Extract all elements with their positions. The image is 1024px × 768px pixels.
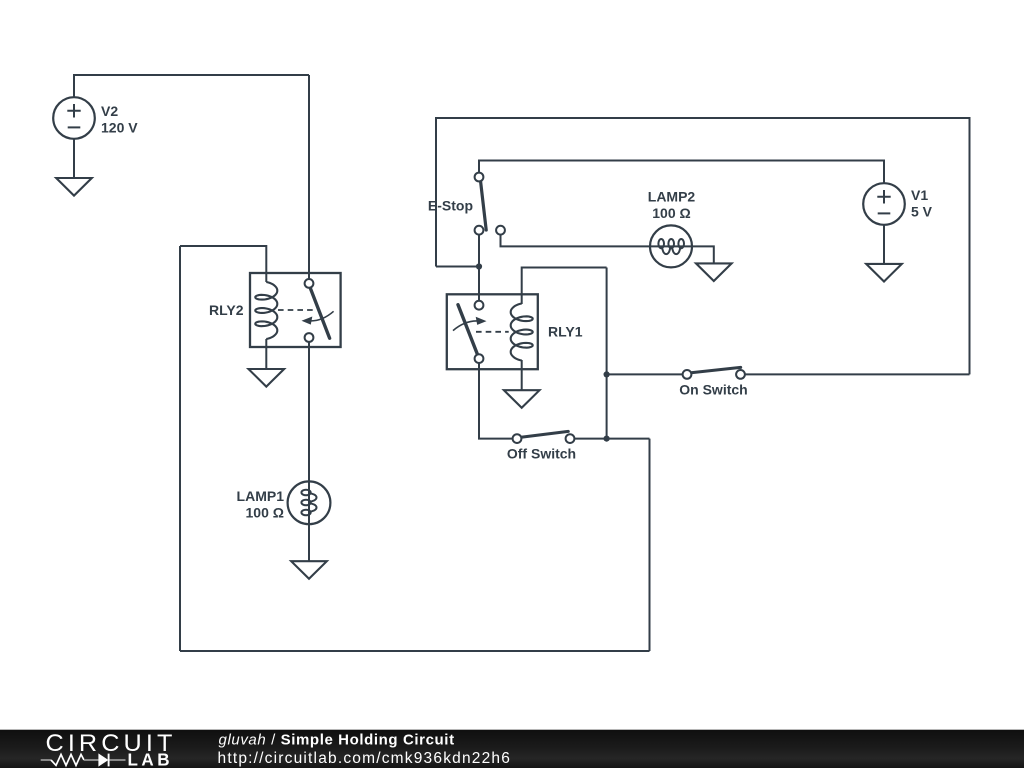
- wire inner top rail: [479, 161, 884, 184]
- svg-text:LAB: LAB: [128, 750, 174, 768]
- lamp LAMP2: [650, 225, 692, 267]
- voltage source V1: [863, 183, 905, 225]
- switch On Switch: [683, 367, 745, 378]
- wire V2 top to node: [74, 75, 309, 98]
- svg-text:120 V: 120 V: [101, 120, 138, 136]
- switch Off Switch: [513, 431, 575, 443]
- svg-text:gluvah / Simple Holding Circui: gluvah / Simple Holding Circuit: [219, 732, 455, 749]
- ground (RLY1): [504, 390, 540, 408]
- ground (V2): [56, 178, 92, 196]
- wire On Switch to outer loop: [745, 373, 970, 375]
- svg-text:LAMP1: LAMP1: [237, 488, 285, 504]
- wire bottom-left loop bottom side: [180, 650, 650, 652]
- svg-text:E-Stop: E-Stop: [428, 197, 473, 213]
- wire RLY1 coil to ground: [521, 360, 523, 390]
- ground (RLY2): [249, 369, 285, 387]
- ground (V1): [866, 264, 902, 282]
- wire node down to RLY2 switch: [308, 75, 310, 279]
- svg-text:100 Ω: 100 Ω: [652, 205, 690, 221]
- wire junction B to On Switch: [607, 373, 683, 375]
- relay RLY2: [250, 273, 341, 347]
- switch E-Stop: [475, 173, 505, 235]
- wire RLY2 coil to ground: [265, 339, 267, 369]
- wire V1 to ground: [883, 225, 885, 264]
- svg-text:Off Switch: Off Switch: [507, 446, 576, 462]
- wire LAMP2 to ground: [692, 246, 714, 263]
- wire right rail vertical: [606, 268, 608, 439]
- relay RLY1: [447, 294, 538, 369]
- wire outer loop top: [436, 118, 970, 374]
- svg-text:V2: V2: [101, 103, 118, 119]
- svg-text:RLY1: RLY1: [548, 324, 583, 340]
- svg-text:5 V: 5 V: [911, 203, 933, 219]
- wire RLY2 switch to LAMP1: [308, 342, 310, 524]
- ground (LAMP2): [696, 263, 732, 281]
- logo resistor-diode glyph: [41, 754, 126, 767]
- voltage source V2: [53, 97, 95, 139]
- wire LAMP1 to ground: [308, 524, 310, 561]
- lamp LAMP1: [288, 481, 331, 524]
- wire bottom-left loop left side: [179, 246, 181, 651]
- node C junction dot: [604, 436, 610, 442]
- wire bottom-left loop right side: [649, 439, 651, 651]
- wire outer loop to junction A: [436, 266, 479, 268]
- wire RLY1 switch bottom to Off Switch: [479, 363, 513, 439]
- node A junction dot: [476, 263, 482, 269]
- node B junction dot: [604, 371, 610, 377]
- ground (LAMP1): [291, 561, 327, 579]
- svg-text:100 Ω: 100 Ω: [246, 505, 284, 521]
- svg-text:On Switch: On Switch: [679, 382, 747, 398]
- wire RLY1 coil top to rail: [522, 268, 607, 305]
- wire V2 bottom to ground: [73, 139, 75, 178]
- svg-text:LAMP2: LAMP2: [648, 188, 696, 204]
- svg-text:RLY2: RLY2: [209, 302, 244, 318]
- svg-text:V1: V1: [911, 187, 928, 203]
- wire E-Stop bottom to RLY1 switch: [478, 235, 480, 301]
- wire left branch: RLY2 coil feed: [180, 246, 266, 282]
- svg-text:http://circuitlab.com/cmk936kd: http://circuitlab.com/cmk936kdn22h6: [218, 750, 512, 767]
- wire E-Stop branch to LAMP2: [501, 235, 693, 247]
- wire Off Switch to junction C: [574, 438, 649, 440]
